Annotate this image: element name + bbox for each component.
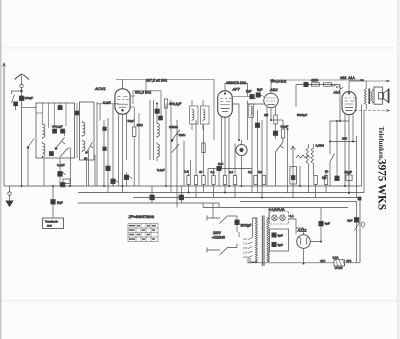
svg-text:0,1: 0,1: [211, 170, 216, 174]
tube V1 ACH1: [115, 89, 130, 114]
switch S6: [330, 154, 335, 163]
wire C8 down: [107, 171, 109, 193]
capacitor C3 5nF: [51, 200, 56, 205]
wire V1 pins down: [119, 113, 127, 193]
capacitor C8: [106, 166, 110, 171]
node S1b: [27, 147, 29, 149]
capacitor C5b: [103, 127, 107, 131]
transformer TR1 secondary winding: [267, 218, 269, 261]
resistor R13: [314, 176, 317, 185]
capacitor C24 4uF: [354, 218, 359, 223]
resistor R10 zigzag: [296, 155, 310, 158]
wire detector coupling: [233, 95, 264, 99]
fuse F1: [334, 260, 345, 266]
capacitor C19: [304, 82, 308, 86]
svg-text:4µF: 4µF: [347, 219, 353, 223]
node antenna branch: [21, 90, 23, 92]
svg-text:5nF: 5nF: [257, 88, 263, 92]
bus B: [78, 192, 364, 194]
resistor R4: [202, 176, 205, 185]
transformer TR1 core: [262, 216, 264, 267]
wire bus D extension: [203, 203, 348, 208]
switch S7 mains a: [220, 216, 229, 224]
svg-text:mer: mer: [47, 223, 52, 227]
switch S4: [172, 130, 181, 153]
capacitor C10: [124, 175, 128, 180]
wire R3R4R5 tails: [196, 185, 214, 198]
svg-text:50µF: 50µF: [345, 171, 352, 175]
resistor R14: [324, 176, 327, 185]
coil L3: [83, 121, 85, 137]
svg-text:5nF: 5nF: [218, 162, 223, 166]
capacitor C18: [291, 176, 295, 180]
wire between boxes: [76, 103, 78, 158]
wire volume feed: [288, 129, 314, 193]
capacitor C23 4uF: [319, 221, 324, 226]
capacitor C6 tuning gang: [58, 106, 62, 110]
svg-text:8µF: 8µF: [278, 234, 284, 238]
wire V1 anode up: [122, 80, 124, 89]
wire V2 top: [225, 84, 248, 97]
resistor R9: [281, 120, 284, 142]
coil box 2 (osc): [80, 102, 95, 160]
wire C9 stub: [113, 177, 119, 186]
svg-text:A1A: A1A: [333, 91, 341, 95]
antenna A1: [15, 74, 30, 87]
wire V1 anode stub right: [130, 96, 135, 113]
svg-text:40: 40: [199, 170, 203, 174]
junction dots power: [303, 241, 323, 265]
resistor R16: [324, 83, 332, 86]
wire V3 pins: [267, 106, 276, 186]
svg-text:100pF: 100pF: [25, 96, 34, 100]
wire heater bottom: [247, 258, 249, 264]
wire pickup drop: [52, 186, 54, 218]
wire lamp stubs: [275, 208, 283, 212]
resistor R6: [223, 176, 226, 185]
coil L4: [83, 140, 85, 152]
annotation arrow top right: [365, 80, 390, 82]
wire TR1 secondary leads: [267, 212, 269, 262]
svg-text:8000pF: 8000pF: [241, 224, 252, 228]
wire right pair down: [362, 105, 365, 193]
svg-text:8µF: 8µF: [278, 243, 284, 247]
wire mid verticals 2: [166, 100, 191, 203]
wire C24: [356, 213, 358, 230]
svg-text:0,1µF: 0,1µF: [103, 101, 111, 105]
wire V4 pins: [345, 114, 357, 198]
wire C13b stub: [180, 186, 182, 203]
tube V3 AB2: [264, 93, 278, 107]
node S2a: [55, 148, 57, 150]
switch S1b band: [28, 139, 34, 187]
svg-text:250: 250: [342, 137, 347, 141]
resistor R4b: [202, 143, 205, 153]
coil L1: [43, 123, 45, 139]
annotation arrowhead lower: [386, 110, 390, 112]
svg-text:V/TRF: V/TRF: [335, 266, 343, 270]
wire C23 up: [320, 208, 322, 222]
node S3: [86, 152, 88, 154]
switch S8 right: [355, 223, 360, 231]
wire det out: [271, 119, 283, 121]
svg-text:0,1µF: 0,1µF: [57, 163, 65, 167]
wire S6 tail: [329, 162, 331, 186]
svg-text:468/473 kHz: 468/473 kHz: [226, 81, 246, 85]
svg-text:4µF: 4µF: [325, 222, 331, 226]
wire output grid row: [296, 85, 340, 122]
svg-text:30: 30: [84, 157, 88, 161]
capacitor C20: [335, 176, 339, 181]
capacitor C14: [217, 166, 221, 170]
resistor R0 horizontal: [63, 179, 70, 184]
resistor R5: [212, 176, 215, 185]
svg-text:470: 470: [346, 259, 351, 263]
wire AF7 osc coupling: [233, 104, 240, 176]
capacitor C13: [150, 195, 155, 200]
wire antenna lead-in: [21, 76, 23, 187]
resistor R11 zigzag vertical: [306, 148, 309, 167]
capacitor C17: [273, 131, 277, 136]
junction dots buses: [21, 185, 351, 199]
svg-text:0,3: 0,3: [184, 170, 189, 174]
switch S5 tone: [276, 142, 284, 186]
wire IF1 tops: [157, 104, 161, 162]
junction dots mid: [103, 103, 240, 188]
svg-text:2M: 2M: [264, 113, 269, 117]
ground GND1: [5, 186, 13, 207]
wire r13r14: [316, 170, 326, 198]
wire detector couple: [248, 101, 264, 198]
bus D: [78, 203, 219, 208]
svg-text:AF7: AF7: [232, 87, 241, 92]
coil L6: [157, 143, 159, 159]
svg-text:110: 110: [243, 237, 248, 241]
wire osc frame: [133, 80, 161, 105]
capacitor C21 50uF: [346, 175, 352, 186]
dial lamps box: [270, 212, 289, 225]
wire mains leads: [207, 216, 239, 253]
wire box2 to V1 grid: [97, 103, 119, 105]
scan right edge shade: [397, 0, 400, 339]
capacitor C9: [111, 179, 115, 184]
capacitor C7b on bus: [61, 183, 65, 187]
wire V4 top anode: [349, 81, 365, 91]
wire antenna to earth switch: [12, 91, 22, 94]
capacitor C1 100pF: [19, 96, 24, 101]
scan top faint rule: [2, 47, 398, 50]
potentiometer P1 body: [290, 167, 297, 185]
capacitor C5: [75, 111, 79, 115]
wire verticals under AF7: [196, 120, 219, 186]
wire R7 tail: [234, 185, 236, 198]
svg-text:125: 125: [243, 242, 248, 246]
capacitor C5c: [103, 147, 107, 151]
coil box 1 (band filter): [36, 103, 75, 158]
wire right of box2: [96, 102, 98, 186]
svg-text:0,3A: 0,3A: [333, 256, 339, 260]
tube V4 AL4: [342, 92, 356, 115]
wire bus D to mains: [212, 203, 214, 218]
resistor R2: [187, 170, 190, 193]
electrolytic box 2x8uF: [270, 229, 289, 251]
svg-text:0,5: 0,5: [248, 170, 253, 174]
wire left rail: [3, 64, 5, 186]
tube V5 AZ11: [297, 235, 311, 249]
svg-text:50pF: 50pF: [128, 119, 135, 123]
junction dots right: [270, 119, 354, 143]
scan left edge shadow: [0, 0, 2, 339]
capacitor C22 8000pF: [235, 220, 240, 225]
output transformer TR2 secondary: [371, 92, 373, 101]
resistor R3: [194, 176, 197, 185]
IF transformer 2 frame right: [201, 106, 210, 124]
switch S2b: [60, 148, 68, 157]
connector plug P2: [362, 222, 365, 227]
svg-text:ZF=468/473kHz: ZF=468/473kHz: [128, 215, 155, 219]
capacitor C16 5000pF: [250, 94, 254, 98]
wire V3 anode up: [270, 80, 272, 93]
svg-text:5000pF: 5000pF: [297, 113, 307, 117]
wire R6 tail: [224, 185, 226, 193]
wire TR2 leads: [366, 81, 374, 110]
wire mid drops: [89, 104, 114, 187]
svg-text:470: 470: [320, 259, 325, 263]
resistor R16b zigzag: [331, 84, 343, 90]
svg-text:240: 240: [243, 255, 248, 259]
capacitor C2: [14, 102, 18, 106]
resistor R1 0.5M: [133, 113, 136, 186]
resistor R8b: [254, 176, 257, 185]
IF coil L7: [249, 104, 254, 118]
svg-text:287,5 ±2 kHz: 287,5 ±2 kHz: [146, 78, 167, 82]
capacitor C16b 5000pF: [256, 93, 260, 97]
tube V2 AF7: [218, 91, 233, 117]
wire C17 tail: [275, 136, 277, 140]
resistor R15: [312, 83, 320, 86]
IF transformer frame: [150, 100, 154, 160]
resistor R8c: [262, 176, 265, 185]
capacitor C13b: [179, 195, 184, 200]
wire earth branch down: [15, 106, 17, 110]
wire gang link: [36, 112, 43, 114]
scan bottom faint rule: [2, 300, 398, 303]
resistor R7: [233, 176, 236, 185]
svg-text:2×6,3V/0,3A: 2×6,3V/0,3A: [269, 208, 285, 212]
svg-text:150: 150: [243, 246, 248, 250]
wire osc drop: [138, 113, 140, 186]
svg-text:5nF: 5nF: [57, 201, 63, 205]
capacitor C4b: [61, 129, 65, 133]
alignment table: [128, 224, 158, 242]
svg-text:3975 WKS: 3975 WKS: [376, 159, 388, 210]
bus C: [133, 198, 360, 263]
svg-text:1M: 1M: [258, 170, 263, 174]
svg-text:0,35M: 0,35M: [316, 144, 325, 148]
coil L5: [157, 122, 159, 138]
svg-text:5nF: 5nF: [246, 90, 252, 94]
bus A chassis: [4, 185, 362, 187]
annotation line AB2-A1A: [270, 79, 364, 81]
wire C13 stub: [151, 186, 153, 203]
svg-text:1MΩ: 1MΩ: [179, 133, 186, 137]
IF transformer 2 frame left: [190, 106, 199, 124]
switch S1 earth: [12, 95, 15, 104]
output transformer TR2 core: [368, 89, 370, 105]
svg-text:4000: 4000: [311, 79, 318, 83]
node S4: [171, 140, 173, 142]
svg-text:0,1µF: 0,1µF: [157, 168, 165, 172]
svg-text:0,1: 0,1: [290, 214, 295, 218]
wire grid line y168: [208, 168, 252, 170]
switch S2a wave change: [56, 138, 65, 149]
node left rail top arrow: [3, 63, 6, 67]
svg-text:0,5: 0,5: [322, 176, 327, 180]
wire box1 inner verticals: [43, 103, 67, 128]
svg-text:1MΩ: 1MΩ: [137, 123, 144, 127]
transformer TR1 primary winding: [255, 218, 257, 262]
output transformer TR2 primary: [364, 89, 366, 104]
coil L2: [43, 142, 45, 158]
capacitor C7: [58, 172, 66, 187]
capacitor C15: [255, 123, 259, 128]
switch S7 mains b: [220, 247, 229, 255]
annotation line 287.5 kHz: [116, 80, 214, 141]
wire C10 stub: [127, 172, 133, 186]
wire bus drop from box1: [44, 158, 87, 186]
potentiometer P1 volume: [291, 146, 296, 198]
svg-text:4×0,1µF: 4×0,1µF: [52, 125, 63, 129]
node bus corner blob: [358, 197, 362, 201]
wire IF2 leads: [192, 100, 203, 130]
loudspeaker LS: [374, 87, 389, 104]
svg-text:Telefunken: Telefunken: [377, 127, 384, 159]
wire box1 internals: [43, 132, 71, 158]
bus C2: [240, 202, 357, 263]
svg-text:0,1µF: 0,1µF: [281, 125, 289, 129]
svg-text:220V: 220V: [213, 231, 222, 235]
capacitor C12: [159, 116, 163, 120]
resistor R8 0.3M: [274, 115, 277, 131]
wire TR1 primary leads: [250, 218, 258, 262]
wire bottom rail: [248, 262, 360, 264]
tuning indicator lamp: [236, 140, 247, 186]
wire AZ11 leads: [289, 219, 322, 264]
annotation dash line lower: [345, 110, 389, 112]
capacitor C11: [155, 109, 159, 113]
svg-text:0,2: 0,2: [229, 170, 234, 174]
svg-text:ACH1: ACH1: [94, 86, 106, 91]
capacitor C4: [53, 129, 57, 133]
wire V2 pins: [222, 116, 230, 186]
voltage selector taps: [243, 237, 253, 259]
resistor R1b: [164, 99, 167, 108]
capacitor C4c: [49, 152, 53, 156]
wire g2 node row: [330, 121, 357, 176]
svg-text:0,5MΩ: 0,5MΩ: [169, 125, 179, 129]
switch S3: [87, 142, 94, 152]
wire antenna stub to box: [22, 107, 37, 109]
svg-text:50: 50: [325, 170, 329, 174]
svg-text:AB2 A1A: AB2 A1A: [340, 76, 355, 80]
svg-text:220: 220: [243, 251, 248, 255]
svg-text:≈110/240: ≈110/240: [212, 235, 225, 239]
pickup jack box Tonabnehmer: [43, 218, 64, 229]
resistor R12 zigzag vertical: [311, 148, 314, 167]
svg-text:AB2: AB2: [269, 87, 278, 92]
